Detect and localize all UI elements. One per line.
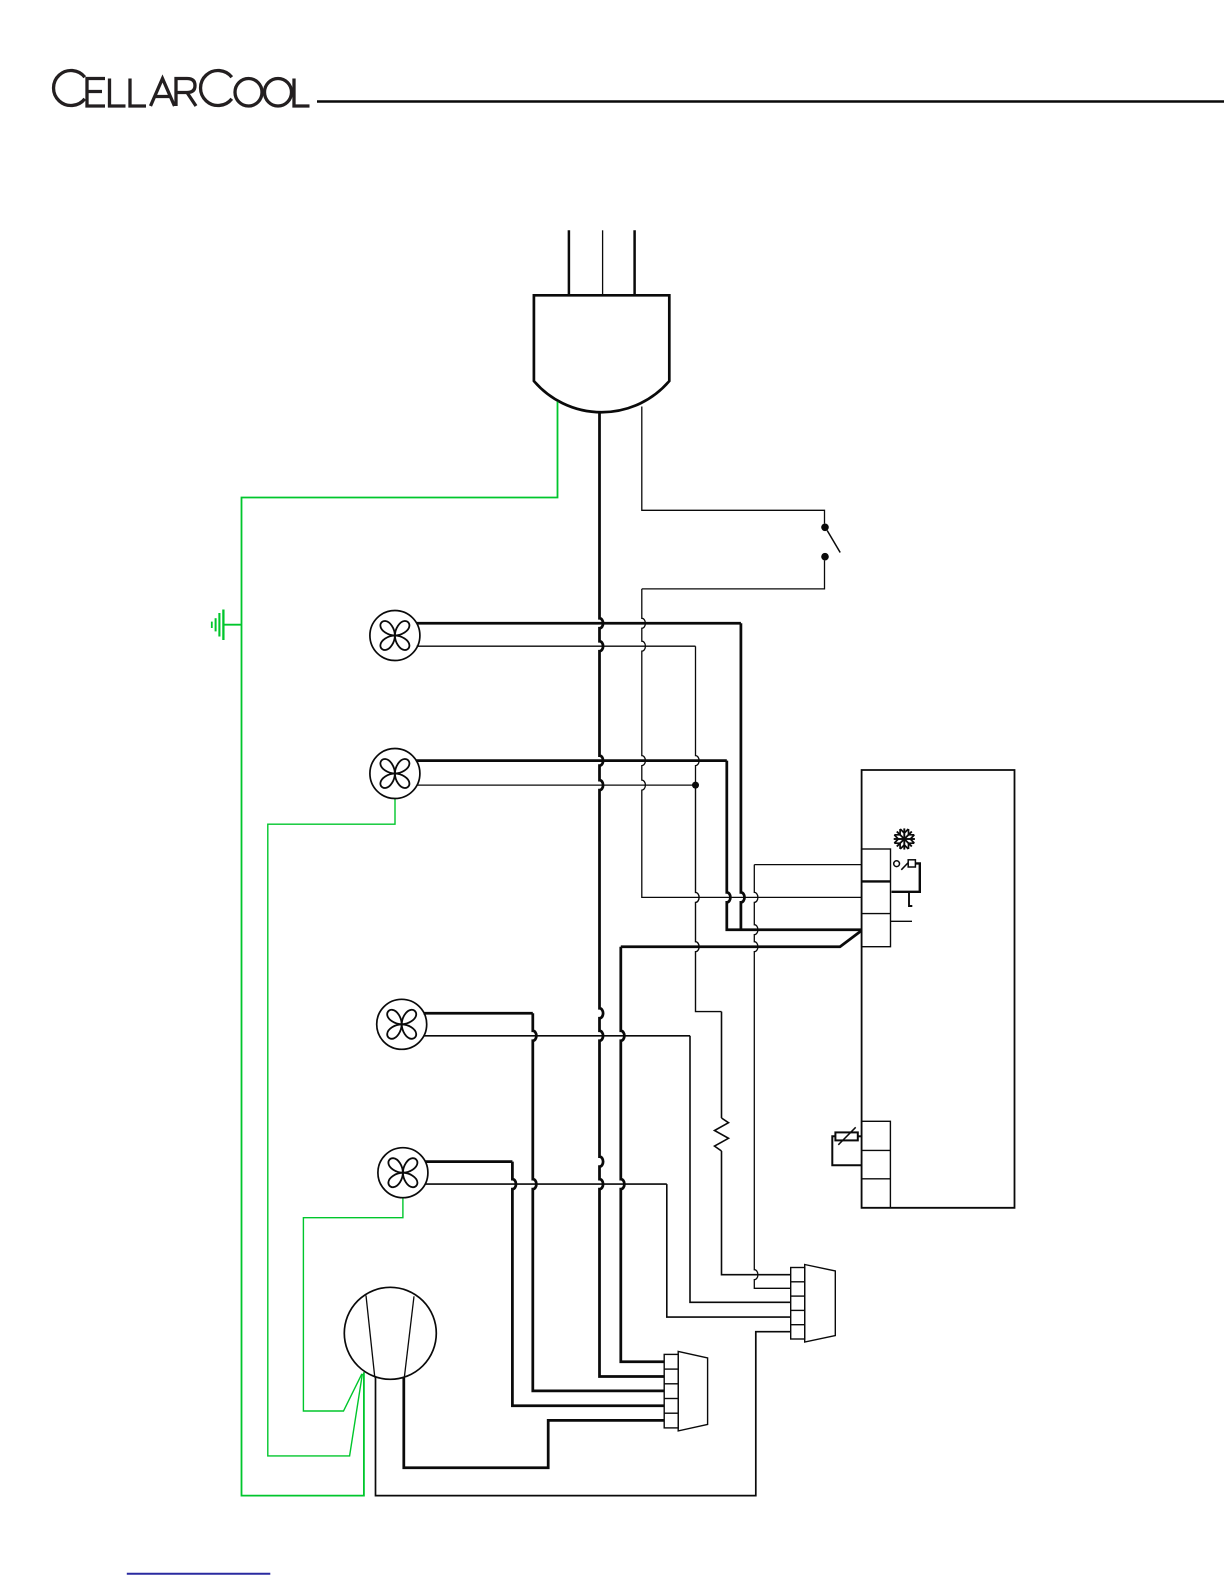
board terminal T3 stub — [891, 920, 913, 922]
wire green ground fan M4 to compressor — [303, 1198, 403, 1411]
thermistor RT1 lead loop to T5 — [832, 1136, 861, 1165]
power plug P1 prong left — [568, 230, 571, 295]
power plug P1 body — [534, 295, 669, 412]
logo CellarCool — [54, 70, 310, 106]
wire fan M4 lead B to connector J1 pin4 — [425, 1184, 791, 1317]
power plug P1 prong right — [633, 230, 636, 295]
resistor R1 — [715, 1118, 729, 1151]
board terminal block T4-T6 — [862, 1121, 891, 1208]
switch S1 contact dot upper — [821, 524, 829, 532]
header rule — [317, 100, 1224, 103]
wire fan M3 lead A — [424, 1012, 533, 1015]
wire fan M4 lead A down to connector J2 pin4 — [512, 1162, 664, 1406]
wire compressor lead A to connector J2 pin5 — [404, 1378, 664, 1468]
defrost sensor drop wire — [909, 892, 912, 906]
wire green ground fan M2 to compressor — [268, 799, 395, 1456]
thermistor RT1 body — [835, 1132, 857, 1140]
chassis ground symbol — [212, 610, 224, 641]
wire junction down to resistor R1 — [696, 785, 722, 1012]
power plug P1 prong middle — [602, 230, 604, 295]
wire green ground from plug to bottom loop — [242, 402, 558, 1496]
defrost thermostat S2 blade — [901, 863, 908, 870]
wire fan M3 lead A down to connector J2 pin3 — [533, 1013, 664, 1391]
fan motor M4 — [378, 1148, 428, 1198]
wire neutral from plug to switch — [642, 407, 825, 524]
switch S1 contact dot lower — [821, 553, 829, 561]
thermistor RT1 lead to T4 — [858, 1135, 862, 1137]
control board U1 outline — [862, 770, 1015, 1208]
fan motor M1 — [370, 611, 420, 661]
wire green ground-symbol branch — [224, 624, 242, 626]
wire fan M2 lead A — [417, 759, 727, 762]
compressor motor M5 — [344, 1287, 436, 1379]
wire fan M1 lead B — [417, 645, 696, 647]
wire hot bus L from plug to connector J2 pin2 — [600, 412, 665, 1376]
wire from switch S1 to bus — [642, 561, 825, 589]
switch S1 blade — [827, 531, 840, 553]
wire fan M2 lead A down and to board terminal T3 — [727, 761, 862, 930]
wire fan M4 lead A — [425, 1160, 512, 1163]
wire switched line down to board terminal T2 — [642, 589, 862, 898]
wire resistor R1 top lead — [721, 1012, 723, 1118]
thermistor RT1 diagonal — [838, 1127, 855, 1145]
connector J1 (5-pin) — [791, 1265, 836, 1343]
wire fan M1 lead B down to junction — [696, 646, 700, 785]
wire board terminal T1 to connector J1 pin2 — [754, 865, 861, 1289]
defrost thermostat S2 bulb — [908, 860, 915, 867]
wire compressor lead B bottom loop to connector J1 pin5 — [376, 1332, 791, 1496]
defrost thermostat S2 contact — [894, 861, 900, 867]
junction node fans M1+M2 lead B — [692, 782, 699, 789]
fan motor M2 — [370, 749, 420, 799]
wire resistor R1 bottom lead to connector J1 pin1 — [722, 1151, 791, 1275]
snowflake defrost icon — [894, 828, 915, 849]
connector J2 (5-pin) — [664, 1351, 707, 1431]
wire fan M2 lead B — [417, 784, 696, 786]
wire fan M3 lead B to connector J1 pin3 — [424, 1036, 791, 1303]
wire board terminal T3 to connector J2 pin1 — [621, 931, 862, 1362]
wire fan M1 lead A — [417, 622, 741, 625]
wire fan M1 lead A down to node T3 — [741, 623, 745, 929]
footer blue rule — [127, 1573, 270, 1575]
defrost thermostat S2 capillary — [892, 863, 920, 891]
board terminal block T1-T3 — [862, 849, 891, 947]
fan motor M3 — [377, 999, 427, 1049]
